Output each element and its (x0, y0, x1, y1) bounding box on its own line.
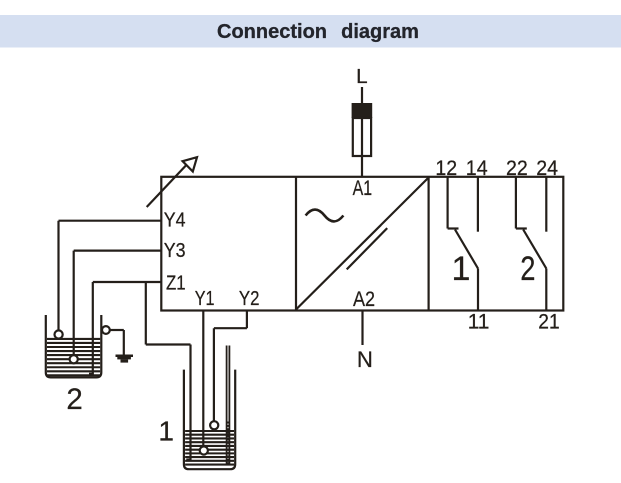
svg-text:2: 2 (66, 383, 82, 416)
svg-text:2: 2 (520, 250, 535, 288)
svg-text:11: 11 (468, 311, 490, 334)
svg-text:Y1: Y1 (195, 288, 215, 310)
svg-text:A2: A2 (353, 288, 375, 311)
svg-text:22: 22 (506, 157, 528, 180)
svg-text:Y3: Y3 (164, 240, 186, 262)
svg-text:14: 14 (466, 157, 488, 180)
svg-text:N: N (357, 347, 373, 372)
svg-text:Connection diagram: Connection diagram (217, 21, 419, 43)
svg-text:12: 12 (435, 157, 457, 180)
svg-text:24: 24 (536, 157, 558, 180)
svg-text:Y4: Y4 (164, 209, 186, 231)
svg-text:L: L (356, 66, 368, 88)
svg-text:1: 1 (452, 250, 471, 288)
svg-text:21: 21 (538, 311, 559, 334)
svg-text:1: 1 (158, 415, 174, 446)
svg-text:Y2: Y2 (239, 288, 260, 310)
svg-text:Z1: Z1 (166, 272, 186, 294)
svg-text:A1: A1 (353, 177, 373, 200)
